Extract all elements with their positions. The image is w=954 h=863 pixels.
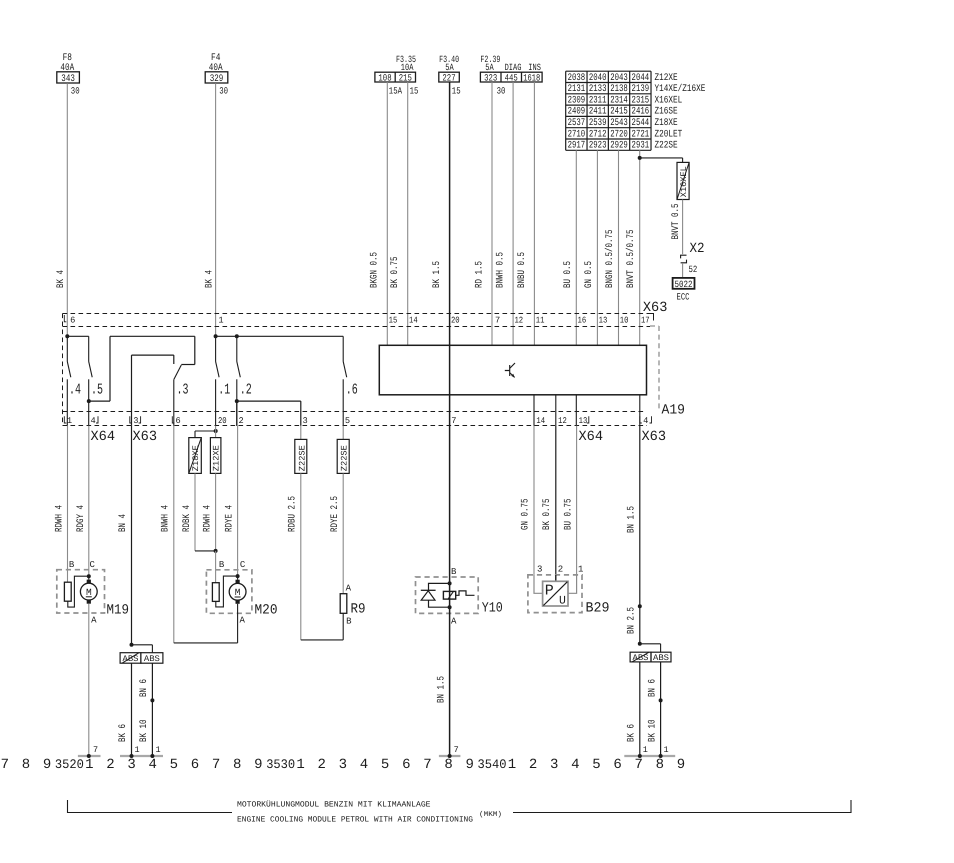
node Y10 bottom bbox=[448, 605, 452, 609]
svg-text:20: 20 bbox=[451, 316, 460, 326]
svg-text:BNVT 0.5/0.75: BNVT 0.5/0.75 bbox=[625, 230, 637, 289]
fuse F2.39 5A terminals 323/445/1618 bbox=[480, 54, 542, 83]
svg-text:RDWH 4: RDWH 4 bbox=[55, 505, 66, 532]
svg-text:.1: .1 bbox=[218, 382, 230, 399]
svg-text:2917: 2917 bbox=[568, 141, 586, 152]
svg-text:2543: 2543 bbox=[610, 118, 628, 129]
ECC connector box 5022 bbox=[673, 278, 695, 290]
svg-text:52: 52 bbox=[689, 264, 698, 275]
svg-text:M: M bbox=[235, 587, 241, 598]
svg-text:2720: 2720 bbox=[610, 129, 628, 140]
option box Z12XE bbox=[210, 438, 221, 474]
jog BN4 to ABS right box bbox=[132, 645, 153, 653]
svg-text:2043: 2043 bbox=[610, 73, 628, 84]
wire RDBU 2.5 below Z22SE to R9.B rail bbox=[300, 473, 302, 640]
svg-text:BK 1.5: BK 1.5 bbox=[432, 261, 443, 288]
svg-text:343: 343 bbox=[61, 74, 75, 85]
wire GN 0.5 from table col2 to X63 pin 13 bbox=[584, 150, 597, 345]
svg-text:Z12XE: Z12XE bbox=[655, 73, 678, 84]
X64/X63 bottom connector pin numbers bbox=[67, 416, 648, 426]
M20 internal link resistor to C bbox=[216, 576, 238, 607]
svg-text:ABS: ABS bbox=[123, 654, 139, 664]
wire BNVT 0.5 to connector X2 bbox=[671, 200, 683, 255]
svg-text:1: 1 bbox=[664, 745, 669, 755]
svg-text:7: 7 bbox=[495, 316, 500, 326]
caption english line bbox=[237, 816, 473, 825]
valve Y10 dashed box bbox=[416, 577, 479, 613]
svg-text:8: 8 bbox=[656, 757, 664, 773]
svg-text:2315: 2315 bbox=[632, 95, 650, 106]
relay contact .2 bbox=[237, 336, 252, 426]
svg-text:ABS: ABS bbox=[633, 653, 649, 663]
svg-text:15A: 15A bbox=[389, 86, 402, 97]
wire X63.20 to option boxes bbox=[215, 426, 217, 438]
wire RDWH 4 below Z12XE bbox=[203, 473, 216, 551]
svg-text:6: 6 bbox=[402, 757, 410, 773]
svg-text:2721: 2721 bbox=[632, 129, 650, 140]
resistor R9 bbox=[340, 594, 347, 614]
svg-text:7: 7 bbox=[451, 416, 456, 426]
node BN4 to ABS bbox=[130, 643, 134, 647]
wire BN 1.5 from X63.4 down bbox=[626, 426, 640, 644]
option box Z22SE second bbox=[337, 439, 350, 473]
svg-text:40A: 40A bbox=[209, 63, 223, 74]
svg-text:1: 1 bbox=[134, 745, 139, 755]
svg-text:7: 7 bbox=[1, 757, 9, 773]
svg-text:M20: M20 bbox=[255, 603, 278, 619]
wire ECU out X64.13 bbox=[575, 395, 577, 426]
svg-text:10: 10 bbox=[620, 316, 629, 326]
svg-text:X16XEL: X16XEL bbox=[655, 95, 683, 106]
svg-text:R9: R9 bbox=[351, 602, 366, 618]
ground symbol ABS right bbox=[624, 745, 675, 758]
wire to M20.B bbox=[215, 551, 217, 583]
rail .4/.5 feed bbox=[67, 335, 88, 337]
svg-text:A: A bbox=[346, 584, 352, 594]
svg-text:BNWH 4: BNWH 4 bbox=[161, 505, 172, 532]
wire .2 output to X64.2 bbox=[236, 401, 238, 426]
svg-text:5A: 5A bbox=[445, 62, 454, 73]
svg-text:.5: .5 bbox=[91, 382, 103, 399]
svg-text:X16XEL: X16XEL bbox=[679, 166, 689, 197]
svg-text:17: 17 bbox=[641, 316, 650, 326]
svg-text:BN 2.5: BN 2.5 bbox=[626, 607, 637, 634]
svg-text:Z18XE: Z18XE bbox=[655, 118, 678, 129]
svg-text:12: 12 bbox=[514, 316, 523, 326]
svg-text:2044: 2044 bbox=[632, 73, 650, 84]
svg-text:B: B bbox=[346, 617, 352, 627]
label R9 bbox=[351, 602, 366, 618]
wire M19.A to ground bbox=[88, 604, 90, 756]
pin 2 of B29 bbox=[558, 565, 563, 575]
svg-text:2138: 2138 bbox=[610, 84, 628, 95]
svg-text:2038: 2038 bbox=[568, 73, 586, 84]
wire BK 6 to ground bbox=[118, 663, 131, 756]
fuse F3.40 5A terminal 227 bbox=[439, 54, 460, 83]
splice BN1.5/BN2.5 bbox=[626, 604, 642, 634]
svg-text:A19: A19 bbox=[662, 403, 686, 419]
ECC label bbox=[677, 292, 690, 303]
node Z12XE option tap bbox=[214, 429, 218, 433]
grid reference numbers bbox=[1, 757, 686, 773]
ground symbol Y10 bbox=[439, 745, 461, 758]
svg-text:RDWH 4: RDWH 4 bbox=[203, 505, 214, 532]
node feed from F8 at X63.6 bbox=[65, 334, 69, 338]
svg-text:227: 227 bbox=[442, 72, 455, 83]
node feed of .2 bbox=[235, 334, 239, 338]
coverage bracket line bbox=[68, 800, 852, 813]
fuse F3.35 10A terminals 108/215 bbox=[375, 54, 416, 83]
wire BNGN 0.5/0.75 from table col3 to X63 pin 10 bbox=[604, 150, 619, 345]
wire to ECC pin 52 bbox=[683, 263, 698, 278]
wire BKGN 0.5 from fuse 108 to X63 pin 15 bbox=[370, 82, 388, 345]
svg-text:2131: 2131 bbox=[568, 84, 586, 95]
svg-text:2139: 2139 bbox=[632, 84, 650, 95]
svg-text:3530: 3530 bbox=[266, 757, 295, 772]
svg-text:M: M bbox=[86, 587, 92, 598]
wire BU 0.75 from X64.13 to B29.1 bbox=[563, 426, 576, 575]
jog to Z18XE option box bbox=[195, 431, 216, 438]
terminal label C of M20 bbox=[240, 560, 246, 570]
pin 15 label bbox=[410, 86, 419, 97]
svg-text:2314: 2314 bbox=[610, 95, 628, 106]
wire RD 1.5 from 323 to X63 pin 7 bbox=[475, 82, 493, 345]
svg-text:6: 6 bbox=[175, 416, 180, 426]
option box ABS (crossed out) left pair bbox=[120, 653, 141, 664]
pin 15 label of F3.40 bbox=[452, 86, 461, 97]
wire BN 6 / BK 10 to ground right bbox=[647, 662, 660, 756]
label B29 bbox=[586, 601, 610, 617]
wire BK 6 to ground right bbox=[627, 662, 640, 756]
svg-text:6: 6 bbox=[613, 757, 621, 773]
terminal label A of M19 bbox=[91, 616, 97, 626]
svg-text:7: 7 bbox=[93, 745, 98, 755]
terminal label C of M19 bbox=[89, 560, 95, 570]
svg-text:3: 3 bbox=[127, 757, 135, 773]
fuse F4 40A bbox=[205, 53, 228, 85]
svg-text:BK 4: BK 4 bbox=[56, 270, 67, 288]
wire BNBU 0.5 from 1618 to X63 pin 11 bbox=[517, 82, 534, 345]
svg-text:(MKM): (MKM) bbox=[479, 810, 502, 819]
svg-text:2311: 2311 bbox=[589, 95, 607, 106]
resistor in M20 bbox=[212, 583, 219, 602]
svg-text:10A: 10A bbox=[401, 62, 414, 73]
node feed from F4 at X63.1 bbox=[214, 334, 218, 338]
label A19 bbox=[662, 403, 686, 419]
svg-text:BU 0.75: BU 0.75 bbox=[563, 499, 574, 531]
motor M20 symbol bbox=[229, 580, 246, 604]
svg-text:5: 5 bbox=[170, 757, 178, 773]
svg-text:1: 1 bbox=[508, 757, 516, 773]
node below contact .5 bbox=[87, 399, 91, 403]
svg-text:.2: .2 bbox=[240, 382, 252, 399]
svg-text:M19: M19 bbox=[107, 603, 130, 619]
wire BNWH 0.5 from 445 to X63 pin 12 bbox=[496, 82, 514, 345]
wire ECU out X64.14 bbox=[533, 395, 535, 426]
svg-text:BNGN 0.5/0.75: BNGN 0.5/0.75 bbox=[604, 230, 616, 289]
svg-text:MOTORKÜHLUNGMODUL BENZIN MIT K: MOTORKÜHLUNGMODUL BENZIN MIT KLIMAANLAGE bbox=[237, 800, 431, 810]
wire BNWH 4 from X63.6 down bbox=[161, 426, 174, 643]
svg-text:RD 1.5: RD 1.5 bbox=[475, 261, 486, 288]
svg-text:RDGY 4: RDGY 4 bbox=[76, 505, 87, 532]
svg-text:Z22SE: Z22SE bbox=[297, 445, 307, 471]
svg-text:2537: 2537 bbox=[568, 118, 586, 129]
svg-text:1: 1 bbox=[85, 757, 93, 773]
wire C into motor bbox=[88, 576, 90, 580]
svg-text:BK 10: BK 10 bbox=[139, 720, 150, 743]
svg-text:2931: 2931 bbox=[632, 141, 650, 152]
relay contact .4 bbox=[67, 336, 81, 426]
svg-text:B: B bbox=[69, 560, 75, 570]
module A19 gray dashed corner bbox=[650, 326, 659, 409]
svg-text:4: 4 bbox=[90, 416, 95, 426]
wire BN 1.5 from Y10.A to ground bbox=[437, 583, 450, 756]
svg-text:2: 2 bbox=[318, 757, 326, 773]
rail .1 to .2 to .6 bbox=[216, 335, 344, 337]
label X64 right bbox=[579, 429, 604, 445]
svg-text:RDBU 2.5: RDBU 2.5 bbox=[288, 496, 299, 532]
svg-text:13: 13 bbox=[579, 416, 588, 426]
resistor in M19 bbox=[64, 582, 71, 601]
rail .5 to .3 bbox=[110, 335, 195, 337]
svg-text:12: 12 bbox=[558, 416, 567, 426]
wire BN from X63.3 inside A19 bbox=[131, 355, 133, 426]
suppressor diode branch in Y10 bbox=[421, 583, 450, 607]
terminal label B of M20 bbox=[219, 560, 225, 570]
svg-text:4: 4 bbox=[360, 757, 368, 773]
splice BN6/BK10 right bbox=[659, 698, 663, 702]
svg-text:445: 445 bbox=[505, 72, 518, 83]
wire RDYE 4 from X64.2 to M20.C bbox=[224, 426, 237, 576]
wire BK 4 from F8 to X63 pin 6 bbox=[56, 83, 67, 336]
svg-text:2: 2 bbox=[558, 565, 563, 575]
svg-text:14: 14 bbox=[536, 416, 545, 426]
svg-text:A: A bbox=[91, 616, 97, 626]
svg-text:1: 1 bbox=[155, 745, 160, 755]
label X63 top right bbox=[643, 300, 668, 316]
svg-text:2923: 2923 bbox=[589, 141, 607, 152]
option box ABS right pair bbox=[651, 652, 671, 663]
fuse F8 40A bbox=[57, 53, 80, 85]
node join of option legs bbox=[214, 549, 218, 553]
svg-text:4: 4 bbox=[149, 757, 157, 773]
svg-text:20: 20 bbox=[218, 416, 227, 426]
pin 30 of F4 bbox=[219, 86, 228, 97]
svg-text:C: C bbox=[89, 560, 95, 570]
relay contact .5 bbox=[89, 336, 103, 426]
svg-text:BKGN 0.5: BKGN 0.5 bbox=[370, 252, 381, 288]
svg-text:9: 9 bbox=[677, 757, 685, 773]
svg-text:Z22SE: Z22SE bbox=[655, 141, 678, 152]
svg-text:A: A bbox=[451, 617, 457, 627]
svg-text:8: 8 bbox=[22, 757, 30, 773]
wire RDBK 4 below Z18XE bbox=[182, 473, 195, 551]
svg-text:1: 1 bbox=[218, 316, 223, 326]
pin brackets bottom band bbox=[64, 416, 651, 423]
svg-text:GN 0.5: GN 0.5 bbox=[584, 261, 595, 288]
label M19 bbox=[107, 603, 130, 619]
svg-text:4: 4 bbox=[643, 416, 648, 426]
wire BK 4 from F4 to X63 pin 1 bbox=[205, 83, 216, 336]
svg-text:5: 5 bbox=[381, 757, 389, 773]
svg-text:9: 9 bbox=[465, 757, 473, 773]
svg-text:DIAG: DIAG bbox=[505, 62, 522, 73]
svg-text:2309: 2309 bbox=[568, 95, 586, 106]
sensor B29 dashed box bbox=[528, 575, 582, 613]
svg-text:2409: 2409 bbox=[568, 107, 586, 118]
svg-text:A: A bbox=[239, 616, 245, 626]
svg-text:3: 3 bbox=[133, 416, 138, 426]
option box ABS (crossed out) right pair bbox=[630, 652, 651, 663]
svg-text:15: 15 bbox=[410, 86, 419, 97]
wire .2 output to X64.3 bbox=[237, 401, 301, 426]
svg-text:6: 6 bbox=[70, 316, 75, 326]
jog Z18XE leg to Z12XE leg bbox=[195, 550, 216, 552]
svg-text:X64: X64 bbox=[579, 429, 604, 445]
node Y10 top bbox=[448, 581, 452, 585]
svg-text:ENGINE COOLING MODULE PETROL W: ENGINE COOLING MODULE PETROL WITH AIR CO… bbox=[237, 816, 473, 825]
connector X2 label bbox=[690, 241, 705, 257]
svg-text:2712: 2712 bbox=[589, 129, 607, 140]
svg-text:.6: .6 bbox=[346, 382, 358, 399]
label M20 bbox=[255, 603, 278, 619]
svg-text:30: 30 bbox=[219, 86, 228, 97]
svg-text:2415: 2415 bbox=[610, 107, 628, 118]
terminal label A of M20 bbox=[239, 616, 245, 626]
wire branch to X16XEL option box bbox=[640, 158, 683, 163]
svg-text:X2: X2 bbox=[690, 241, 705, 257]
relay contact .3 (changeover) bbox=[174, 336, 195, 426]
wire BNVT 0.5/0.75 from table col4 to X63 pin 17 bbox=[625, 150, 640, 345]
wire RDBU 2.5 from X64.3 to Z22SE bbox=[288, 426, 301, 532]
svg-text:30: 30 bbox=[71, 86, 80, 97]
svg-text:X63: X63 bbox=[133, 429, 158, 445]
svg-text:8: 8 bbox=[444, 757, 452, 773]
option box X16XEL (crossed out) bbox=[677, 162, 689, 199]
svg-text:6: 6 bbox=[191, 757, 199, 773]
svg-text:16: 16 bbox=[578, 316, 587, 326]
caption german line bbox=[237, 800, 431, 810]
wire BK 0.75 from fuse 215 to X63 pin 14 bbox=[390, 82, 408, 345]
solenoid coil of Y10 bbox=[443, 591, 455, 599]
svg-text:2133: 2133 bbox=[589, 84, 607, 95]
svg-text:RDYE 2.5: RDYE 2.5 bbox=[330, 496, 341, 532]
svg-text:9: 9 bbox=[43, 757, 51, 773]
inline connector X2 symbol bbox=[681, 255, 687, 263]
terminal label A of Y10 bbox=[451, 617, 457, 627]
svg-text:RDBK 4: RDBK 4 bbox=[182, 505, 193, 532]
svg-text:5022: 5022 bbox=[675, 279, 693, 290]
svg-text:BK 0.75: BK 0.75 bbox=[542, 499, 553, 531]
svg-text:ABS: ABS bbox=[653, 653, 669, 663]
pin bracket before 6 bbox=[64, 315, 66, 322]
module A19 dashed boundary with connector bands bbox=[63, 314, 651, 426]
svg-text:5: 5 bbox=[592, 757, 600, 773]
wire BN 6 / BK 10 to ground bbox=[139, 663, 152, 756]
pin 17 corner bracket bbox=[649, 314, 654, 321]
svg-text:BN 6: BN 6 bbox=[139, 679, 150, 697]
svg-text:1: 1 bbox=[296, 757, 304, 773]
svg-text:GN 0.75: GN 0.75 bbox=[521, 499, 532, 531]
svg-text:2: 2 bbox=[529, 757, 537, 773]
wire .5 output jog bbox=[89, 336, 110, 401]
svg-text:1: 1 bbox=[578, 565, 583, 575]
label X64 left bbox=[91, 429, 116, 445]
svg-text:2929: 2929 bbox=[610, 141, 628, 152]
terminal label A of R9 bbox=[346, 584, 352, 594]
M19 internal link resistor to C bbox=[68, 576, 89, 607]
svg-text:BK 6: BK 6 bbox=[627, 724, 638, 742]
svg-text:Z12XE: Z12XE bbox=[211, 445, 221, 471]
label X63 left bbox=[133, 429, 158, 445]
svg-text:B: B bbox=[451, 567, 457, 577]
svg-text:2411: 2411 bbox=[589, 107, 607, 118]
svg-text:.4: .4 bbox=[69, 382, 81, 399]
wire RDYE 2.5 from X64.5 to Z22SE bbox=[330, 426, 343, 532]
option box ABS left pair bbox=[141, 653, 163, 664]
node BN to ABS right bbox=[638, 642, 642, 646]
junction on BNVT wire bbox=[638, 156, 642, 160]
svg-text:Z16SE: Z16SE bbox=[655, 107, 678, 118]
X63 top connector pin numbers bbox=[70, 316, 650, 326]
svg-text:2539: 2539 bbox=[589, 118, 607, 129]
svg-text:2: 2 bbox=[238, 416, 243, 426]
wire BK 1.5 from fuse 227 through A19 to Y10 bbox=[432, 82, 450, 583]
svg-text:BNBU 0.5: BNBU 0.5 bbox=[517, 252, 528, 288]
svg-text:X63: X63 bbox=[642, 429, 667, 445]
pin 3 of B29 bbox=[537, 565, 542, 575]
label Y10 bbox=[482, 601, 503, 617]
svg-text:BK 4: BK 4 bbox=[205, 270, 216, 288]
wire ECU out X63.4 bbox=[639, 395, 641, 426]
pin 15A label bbox=[389, 86, 402, 97]
relay contact .6 bbox=[343, 336, 358, 426]
svg-text:3: 3 bbox=[537, 565, 542, 575]
svg-text:329: 329 bbox=[210, 74, 224, 85]
pin 30 label of F2.39 bbox=[497, 86, 506, 97]
motor module M20 dashed box bbox=[206, 570, 252, 614]
svg-text:4: 4 bbox=[571, 757, 579, 773]
svg-text:BK 6: BK 6 bbox=[118, 724, 129, 742]
terminal label B of R9 bbox=[346, 617, 352, 627]
svg-text:9: 9 bbox=[254, 757, 262, 773]
svg-text:ECC: ECC bbox=[677, 292, 690, 303]
splice BN6/BK10 bbox=[150, 698, 154, 702]
wire ECU out X64.12 bbox=[555, 395, 557, 426]
svg-text:2416: 2416 bbox=[632, 107, 650, 118]
caption MKM note bbox=[479, 810, 502, 819]
B29 internal stubs bbox=[534, 575, 577, 593]
node below contact .2 bbox=[235, 399, 239, 403]
svg-text:BNWH 0.5: BNWH 0.5 bbox=[496, 252, 507, 288]
svg-text:3: 3 bbox=[550, 757, 558, 773]
svg-text:2544: 2544 bbox=[632, 118, 650, 129]
wire RDWH 4 from X64.1 to M19.B bbox=[55, 426, 68, 582]
svg-text:BN 1.5: BN 1.5 bbox=[437, 676, 448, 703]
svg-text:1618: 1618 bbox=[523, 72, 540, 83]
svg-text:3520: 3520 bbox=[55, 757, 84, 772]
ECU terminal cross-reference table bbox=[566, 71, 651, 151]
svg-text:13: 13 bbox=[599, 316, 608, 326]
svg-text:C: C bbox=[240, 560, 246, 570]
svg-text:5: 5 bbox=[345, 416, 350, 426]
wire M20.A to BNWH wire bbox=[174, 604, 238, 643]
svg-text:323: 323 bbox=[484, 72, 497, 83]
jog BN to ABS right box bbox=[640, 644, 661, 652]
svg-text:15: 15 bbox=[452, 86, 461, 97]
svg-text:7: 7 bbox=[634, 757, 642, 773]
svg-text:Z22SE: Z22SE bbox=[340, 445, 350, 471]
